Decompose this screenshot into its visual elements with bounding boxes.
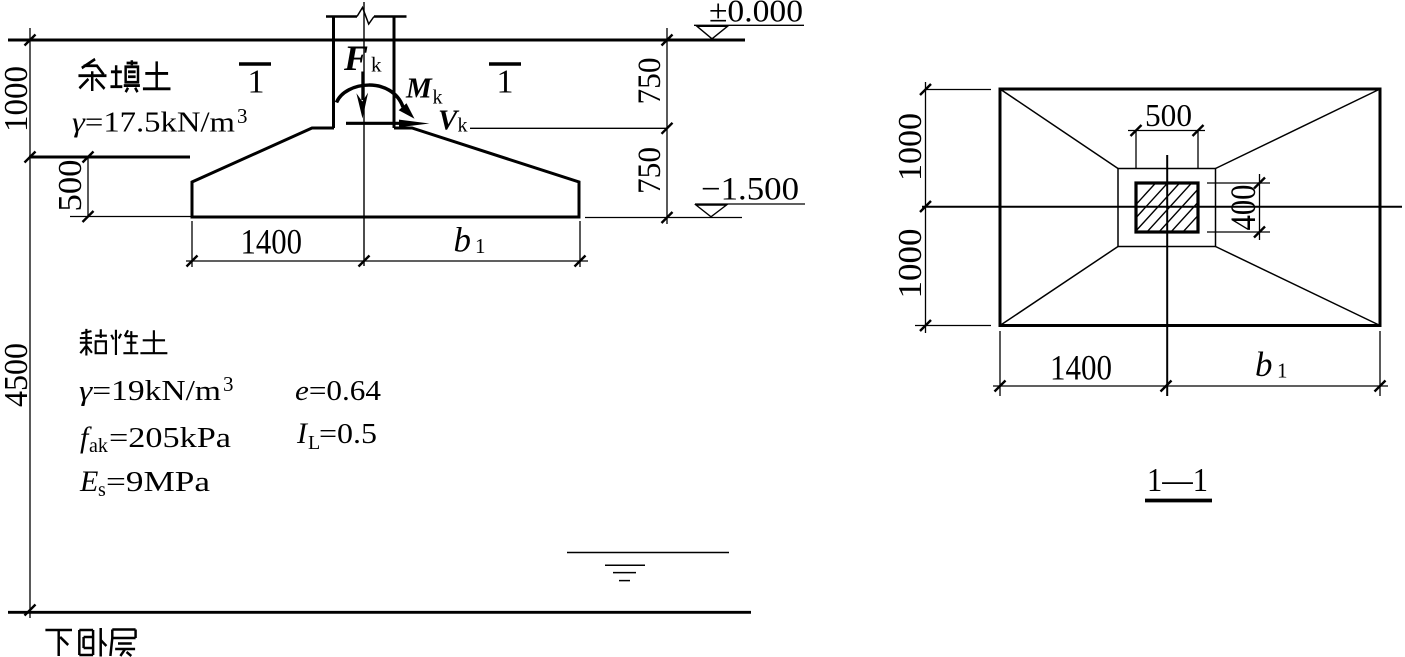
vertical centerline xyxy=(1166,155,1168,396)
diagonal top-right xyxy=(1216,89,1381,169)
svg-text:3: 3 xyxy=(237,104,248,128)
column centerline xyxy=(363,2,365,266)
svg-text:750: 750 xyxy=(632,58,668,105)
svg-text:3: 3 xyxy=(223,372,234,396)
left dimension line vertical xyxy=(29,28,31,618)
svg-text:1400: 1400 xyxy=(1050,348,1112,388)
tick at ground xyxy=(25,35,36,46)
diagonal bottom-left xyxy=(1000,247,1118,326)
inner rectangle pedestal xyxy=(1118,169,1216,247)
outer rectangle footing plan xyxy=(1000,89,1380,326)
leader line from Vk to right dim xyxy=(470,127,667,129)
extension top xyxy=(926,89,992,91)
break zigzag xyxy=(357,8,374,25)
hatched column square xyxy=(1100,176,1234,244)
tick at layer boundary xyxy=(25,152,36,163)
svg-text:±0.000: ±0.000 xyxy=(709,0,803,29)
elevation mark ±0.000 xyxy=(694,24,804,26)
diagonal bottom-right xyxy=(1216,247,1381,326)
soil label 杂填土 (drawn strokes) xyxy=(78,59,170,92)
svg-text:ak: ak xyxy=(89,435,108,457)
column left side xyxy=(332,17,335,129)
soil label 黏性土 (drawn strokes) xyxy=(80,329,168,356)
bottom dim (plan 1400/b1) xyxy=(993,385,1388,387)
tick 500 top xyxy=(83,152,94,163)
svg-text:1000: 1000 xyxy=(892,229,929,299)
400 dim (plan) xyxy=(1259,174,1261,240)
extension line right xyxy=(579,221,581,267)
column cap line right xyxy=(374,15,407,18)
svg-text:1: 1 xyxy=(248,64,265,101)
svg-text:M: M xyxy=(405,73,433,105)
tick 500 bottom xyxy=(83,211,94,222)
1400 / b1 dimension line xyxy=(186,260,588,262)
svg-text:1: 1 xyxy=(1277,359,1288,383)
svg-text:b: b xyxy=(454,221,472,260)
500 dim (plan) xyxy=(1128,130,1205,132)
svg-text:750: 750 xyxy=(632,147,668,194)
soil layer boundary line (left, partial) xyxy=(29,156,190,159)
footing bottom extension line left xyxy=(70,216,192,218)
horizontal centerline xyxy=(922,206,1402,208)
svg-text:e=0.64: e=0.64 xyxy=(295,375,382,407)
section mark 1 left xyxy=(239,62,271,66)
svg-text:γ=17.5kN/m: γ=17.5kN/m xyxy=(72,107,235,139)
svg-text:1: 1 xyxy=(497,64,514,101)
tick at bottom line xyxy=(25,605,36,616)
svg-text:1000: 1000 xyxy=(892,113,929,181)
left dim line (plan 1000/1000) xyxy=(925,82,927,333)
svg-text:=0.5: =0.5 xyxy=(319,418,377,450)
svg-text:b: b xyxy=(1255,345,1273,384)
footing outline xyxy=(191,128,581,219)
shear Vk arrow xyxy=(346,122,403,125)
svg-text:γ=19kN/m: γ=19kN/m xyxy=(79,375,222,407)
diagonal top-left xyxy=(1000,89,1118,169)
water table symbol xyxy=(567,552,729,554)
extension line left xyxy=(191,221,193,267)
svg-text:=9MPa: =9MPa xyxy=(106,466,210,498)
svg-text:4500: 4500 xyxy=(0,343,35,407)
500 dim vertical line xyxy=(87,157,89,217)
svg-text:k: k xyxy=(458,115,468,137)
footing bottom extension right xyxy=(585,217,742,219)
svg-text:500: 500 xyxy=(1145,97,1192,133)
elevation mark -1.500 xyxy=(695,203,805,205)
svg-text:−1.500: −1.500 xyxy=(701,172,799,208)
svg-text:1: 1 xyxy=(475,234,486,258)
layer label 下卧层 (drawn strokes) xyxy=(45,628,135,657)
ground line (top soil surface) xyxy=(8,39,745,42)
svg-text:1000: 1000 xyxy=(0,66,35,132)
force Fk arrow xyxy=(361,72,364,101)
right dim line vertical (750/750) xyxy=(666,28,668,224)
svg-text:s: s xyxy=(98,479,106,501)
bottom soil layer line xyxy=(8,611,751,614)
moment Mk arc xyxy=(337,85,404,107)
svg-text:F: F xyxy=(343,38,368,78)
section mark 1 right xyxy=(489,62,521,66)
svg-text:500: 500 xyxy=(52,160,89,212)
column cap line left xyxy=(326,15,357,18)
svg-text:1400: 1400 xyxy=(241,222,303,262)
extension bottom xyxy=(915,325,991,327)
svg-text:400: 400 xyxy=(1223,185,1263,231)
column right side xyxy=(393,17,396,129)
svg-text:k: k xyxy=(371,53,382,77)
svg-text:=205kPa: =205kPa xyxy=(109,422,231,454)
svg-text:1—1: 1—1 xyxy=(1147,462,1208,499)
svg-text:E: E xyxy=(79,465,98,498)
